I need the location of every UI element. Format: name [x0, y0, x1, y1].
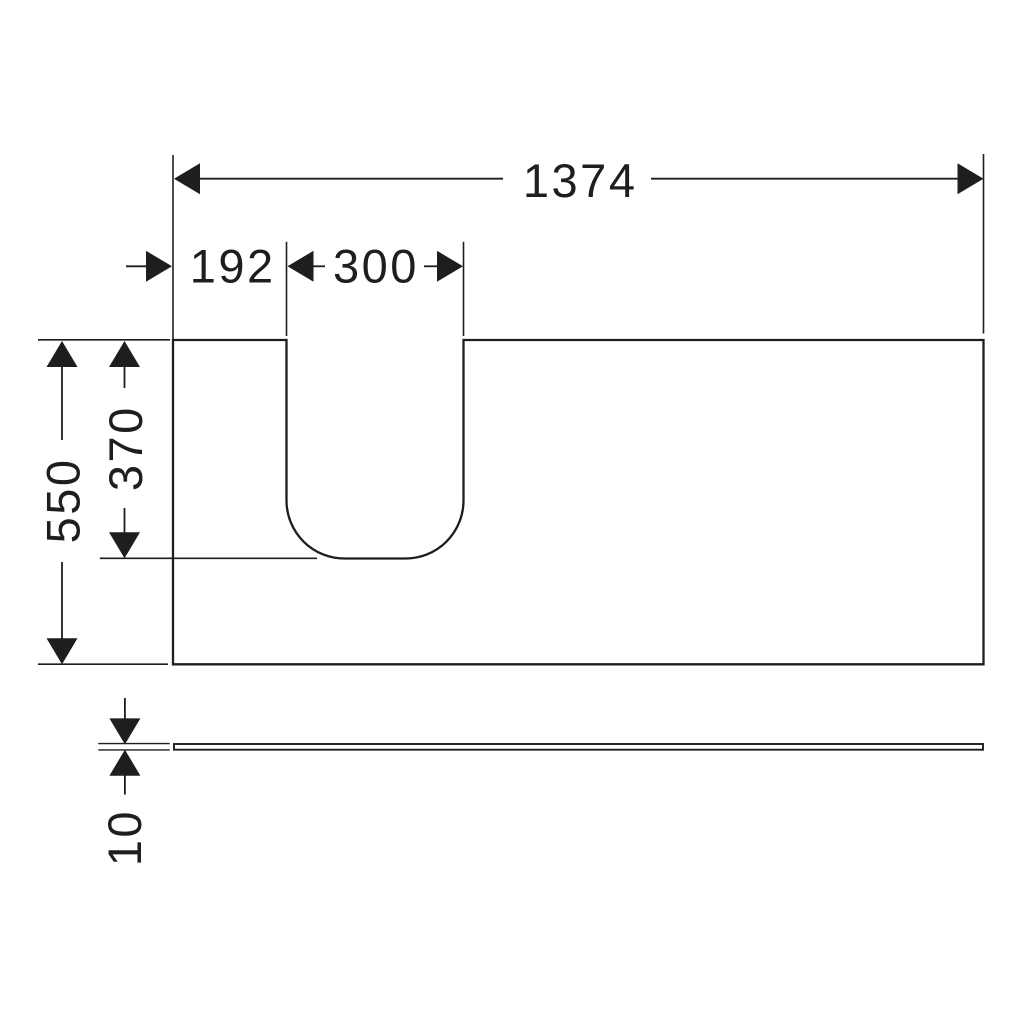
dimension 10: top extension line [98, 743, 169, 745]
dimension 550: lower stem [61, 562, 63, 639]
dimension 1374: dimension line left segment [199, 178, 503, 180]
dimension 300: left stub line [314, 265, 326, 267]
dimension 1374: right extension line [983, 154, 985, 334]
dimension 370: lower stem [124, 508, 126, 533]
dimension 10: bottom extension line [98, 749, 169, 751]
dimension 550: top extension line [38, 339, 170, 341]
dimension 370: bottom arrowhead pointing down [109, 532, 140, 558]
svg-text:300: 300 [333, 240, 419, 293]
dimension 300: right stub line [424, 265, 437, 267]
countertop outline (top view) with basin cutout [173, 340, 984, 664]
dimension 550: bottom extension line [38, 663, 168, 665]
svg-text:1374: 1374 [523, 154, 638, 207]
svg-text:550: 550 [37, 457, 90, 543]
extension line: cutout left edge [286, 242, 288, 336]
dimension 10: lower stem [124, 776, 126, 795]
extension line: cutout right edge [463, 242, 465, 336]
dimension 550: upper stem [61, 366, 63, 440]
svg-text:192: 192 [190, 240, 276, 293]
dimension 370: top arrowhead pointing up [109, 341, 140, 367]
dimension 10: upper stem [124, 698, 126, 720]
dimension 1374: left arrowhead [174, 163, 200, 194]
dimension 1374: dimension line right segment [651, 178, 959, 180]
dimension 550: top arrowhead pointing up [47, 341, 78, 367]
dimension 192: outside arrowhead pointing right [146, 251, 172, 282]
side view: countertop plate (10 mm thick) [174, 744, 983, 750]
dimension 10: upper arrowhead pointing down [109, 718, 140, 744]
dimension 370: upper stem [124, 366, 126, 388]
dimension 300: right arrowhead pointing right [437, 251, 463, 282]
dimension 192: outside stub line [126, 265, 146, 267]
dimension 10: lower arrowhead pointing up [109, 750, 140, 776]
dimension 370: bottom extension line [100, 557, 317, 559]
svg-text:370: 370 [99, 405, 152, 491]
dimension 550: bottom arrowhead pointing down [47, 638, 78, 664]
dimension 1374: right arrowhead [958, 163, 984, 194]
dimension 300: left arrowhead pointing left [288, 251, 314, 282]
dimension 1374: left extension line [172, 155, 174, 339]
svg-text:10: 10 [98, 809, 151, 866]
